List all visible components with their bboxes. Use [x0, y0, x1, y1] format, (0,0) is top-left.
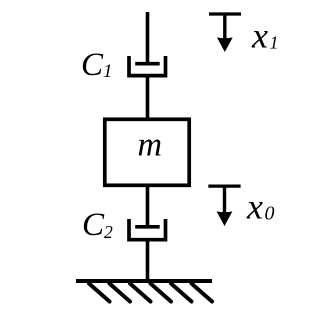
- damper C2 cylinder cup: [129, 219, 166, 240]
- damper C1 piston plate: [135, 62, 160, 66]
- damper C1 cylinder cup: [129, 56, 166, 76]
- svg-text:x1: x1: [251, 16, 278, 56]
- ground hatch 4: [151, 284, 172, 302]
- ground hatch 2: [110, 284, 131, 302]
- ground hatch 6: [192, 284, 213, 302]
- arrow x0 reference: top bar: [208, 185, 240, 188]
- svg-text:C2: C2: [82, 207, 113, 243]
- ground line: [76, 279, 212, 283]
- mass block m: [105, 119, 189, 185]
- arrow x1 shaft: [223, 14, 226, 40]
- arrow x1 head: [217, 37, 233, 52]
- ground hatch 5: [171, 284, 192, 302]
- svg-text:m: m: [138, 127, 163, 164]
- damper C2 piston plate: [135, 225, 160, 229]
- wire mass to damper C2: [146, 185, 150, 227]
- arrow x1 reference: top bar: [209, 12, 241, 15]
- wire damper C2 to ground: [146, 240, 150, 281]
- arrow x0 shaft: [223, 186, 226, 213]
- ground hatch 1: [89, 284, 110, 302]
- arrow x0 head: [217, 211, 233, 226]
- ground hatch 3: [130, 284, 151, 302]
- svg-text:C1: C1: [81, 47, 113, 83]
- svg-text:x0: x0: [246, 187, 274, 227]
- wire damper C1 to mass: [146, 76, 150, 119]
- wire top rod into damper C1: [146, 12, 150, 64]
